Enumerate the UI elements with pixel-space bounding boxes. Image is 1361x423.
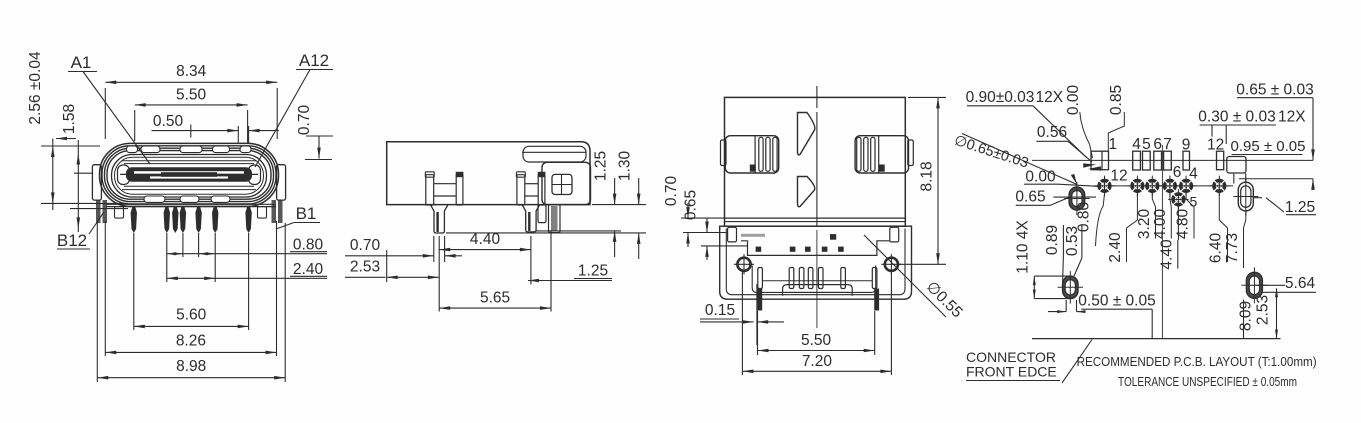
dim 8.34 bbox=[105, 63, 277, 84]
dim 0.70 v3 bbox=[663, 176, 690, 247]
callout 7.73 pcb bbox=[1224, 211, 1246, 268]
side view leg 2 bbox=[516, 172, 545, 205]
front view shell lug pins bbox=[96, 200, 283, 223]
callout 6.40 pcb bbox=[1208, 193, 1228, 263]
front view contact tongue bbox=[126, 167, 252, 182]
pcb pattern center line bbox=[1161, 145, 1163, 339]
front view left lug bbox=[92, 165, 101, 200]
pcb line2b bbox=[1239, 178, 1313, 180]
svg-text:0.85: 0.85 bbox=[1108, 85, 1125, 115]
svg-text:2.53: 2.53 bbox=[1255, 295, 1272, 325]
top view dimple 1 bbox=[798, 113, 815, 155]
dim 1.25/1.30 ext bbox=[446, 205, 646, 233]
dim 8.26 bbox=[105, 333, 276, 355]
pcb front edge line bbox=[1032, 338, 1281, 340]
svg-text:1.25: 1.25 bbox=[1285, 199, 1315, 216]
dim 0.70 v3 ext bbox=[681, 218, 748, 246]
dim 0.80 text bbox=[290, 236, 327, 253]
svg-text:5.60: 5.60 bbox=[176, 307, 207, 324]
top view comb slots bbox=[758, 268, 877, 289]
svg-text:1.58: 1.58 bbox=[61, 104, 78, 134]
svg-text:6: 6 bbox=[1153, 136, 1162, 153]
svg-text:5.50: 5.50 bbox=[801, 332, 832, 349]
front view mating cavity bbox=[112, 155, 267, 198]
svg-text:0.65: 0.65 bbox=[683, 190, 700, 220]
svg-text:2.40: 2.40 bbox=[293, 261, 324, 278]
pcb slot pad bottom-right bbox=[1241, 267, 1267, 303]
dim 7.20 v3 bbox=[742, 353, 891, 373]
callout 0.89 bbox=[1044, 225, 1063, 283]
svg-text:4: 4 bbox=[1189, 166, 1198, 183]
svg-text:6.40: 6.40 bbox=[1208, 233, 1225, 264]
pcb row1 center line bbox=[1032, 159, 1313, 161]
callout 0.65b bbox=[1015, 189, 1096, 206]
dim 2.40 text bbox=[290, 261, 327, 278]
dim 0.70 v2 text bbox=[345, 237, 386, 256]
front view skirt line bbox=[106, 204, 276, 206]
dim 2.56 ext bbox=[41, 146, 128, 203]
callout 0.50 bbox=[1048, 293, 1156, 339]
svg-text:2.53: 2.53 bbox=[350, 259, 380, 276]
top view solder windows bbox=[741, 234, 844, 252]
pad labels bbox=[1109, 136, 1225, 210]
callout 1.25 pcb bbox=[1253, 198, 1316, 216]
pcb shield pad bbox=[1227, 157, 1246, 184]
front view bottom latch slots bbox=[144, 196, 230, 202]
svg-text:8.26: 8.26 bbox=[176, 333, 206, 350]
svg-text:0.00: 0.00 bbox=[1025, 169, 1056, 186]
pcb slot pad top-right bbox=[1233, 177, 1258, 216]
label B12 bbox=[57, 231, 90, 250]
side view leg2 solder pin bbox=[522, 205, 539, 232]
dim 2.40 line bbox=[167, 277, 327, 281]
callout 1.10 4X bbox=[1015, 220, 1069, 299]
svg-text:1.25: 1.25 bbox=[578, 263, 608, 280]
svg-text:1.25: 1.25 bbox=[593, 151, 610, 181]
dim 2.56 line bbox=[51, 139, 55, 211]
callout 0.30 bbox=[1198, 109, 1306, 145]
front view side contact left bbox=[118, 165, 130, 185]
top view bracket inner bbox=[726, 229, 905, 295]
dim 8.98 bbox=[97, 358, 285, 380]
svg-text:2.56 ±0.04: 2.56 ±0.04 bbox=[27, 51, 44, 125]
svg-text:FRONT EDCE: FRONT EDCE bbox=[966, 364, 1057, 380]
side view leg1 solder pin bbox=[431, 205, 448, 233]
svg-text:12X: 12X bbox=[1278, 109, 1306, 126]
dim 0.50 line right bbox=[249, 129, 279, 133]
svg-text:1.10 4X: 1.10 4X bbox=[1015, 220, 1032, 274]
svg-text:RECOMMENDED P.C.B. LAYOUT (T:: RECOMMENDED P.C.B. LAYOUT (T:1.00mm) bbox=[1077, 354, 1317, 369]
leader A12 bbox=[255, 70, 310, 168]
label B1 bbox=[294, 204, 320, 223]
dim 2.53 v2 line bbox=[387, 250, 439, 282]
dim 1.58 line bbox=[77, 140, 81, 232]
callout 4.80 pcb bbox=[1175, 193, 1194, 239]
dim 1.58 tick bbox=[70, 173, 128, 208]
callout 0.95 bbox=[1231, 138, 1306, 155]
dim 1.58 text bbox=[61, 104, 78, 134]
pcb slot pad top-left bbox=[1064, 182, 1090, 215]
dim 1.25 v2b bbox=[528, 230, 612, 312]
side view shell body bbox=[387, 142, 590, 205]
callout 0.00 rot bbox=[1065, 85, 1093, 158]
svg-text:6: 6 bbox=[1173, 164, 1182, 181]
svg-text:7: 7 bbox=[1163, 136, 1172, 153]
stray arrow bbox=[56, 137, 76, 141]
svg-text:0.56: 0.56 bbox=[1037, 124, 1067, 141]
svg-text:8.34: 8.34 bbox=[176, 63, 207, 80]
dim 0.50 ext bbox=[238, 126, 248, 143]
note tolerance bbox=[1118, 374, 1297, 389]
svg-text:4.40: 4.40 bbox=[1158, 239, 1175, 270]
callout 8.09 bbox=[1238, 300, 1255, 339]
svg-text:4.40: 4.40 bbox=[470, 231, 501, 248]
callout 0.80 pcb bbox=[1076, 194, 1105, 247]
svg-text:0.80: 0.80 bbox=[293, 236, 324, 253]
pcb pad 1 bbox=[1091, 151, 1109, 170]
front view shell outline 4 bbox=[107, 151, 271, 200]
dim 4.40 v2 bbox=[439, 231, 531, 312]
dim 0.65 v3 bbox=[683, 190, 709, 260]
top view left EMC spring bbox=[721, 136, 779, 173]
callout 0.56 bbox=[1037, 124, 1093, 162]
leader B12 bbox=[89, 212, 104, 234]
callout 5.64 bbox=[1263, 275, 1317, 292]
note recommended bbox=[1077, 354, 1317, 369]
top view feet bbox=[757, 289, 879, 311]
svg-text:B12: B12 bbox=[57, 231, 87, 250]
dim 2.56 text bbox=[27, 51, 44, 125]
center tick bbox=[190, 125, 192, 138]
dim 2.53 v2 text bbox=[345, 259, 386, 278]
svg-text:7.73: 7.73 bbox=[1224, 233, 1241, 263]
svg-text:1: 1 bbox=[1109, 136, 1118, 153]
top view left rivet bbox=[734, 254, 754, 274]
top view body bbox=[725, 97, 906, 226]
front view shell outer outline bbox=[100, 143, 279, 206]
front view left leg outline bbox=[115, 207, 124, 219]
svg-text:5.50: 5.50 bbox=[176, 87, 207, 104]
svg-text:8.18: 8.18 bbox=[919, 161, 936, 191]
callout 0.00b bbox=[1024, 169, 1098, 187]
callout 0.90 bbox=[966, 89, 1087, 158]
callout 4.00 pcb bbox=[1152, 193, 1171, 239]
svg-text:0.90±0.03: 0.90±0.03 bbox=[966, 89, 1035, 106]
svg-text:0.30 ± 0.03: 0.30 ± 0.03 bbox=[1198, 109, 1275, 126]
top view bracket outer bbox=[720, 226, 912, 299]
svg-text:4.00: 4.00 bbox=[1152, 209, 1169, 240]
callout dia0.65 bbox=[952, 133, 1077, 185]
side view flange window bbox=[552, 174, 572, 194]
note connector front edge bbox=[966, 340, 1092, 384]
callout 2.53 pcb bbox=[1254, 285, 1285, 338]
dim 8.18 bbox=[919, 97, 940, 264]
pcb through-hole pads row2 bbox=[1094, 176, 1229, 210]
svg-text:0.50: 0.50 bbox=[153, 113, 184, 130]
dim 0.80 line bbox=[167, 252, 327, 255]
pad1 arrows bbox=[1083, 163, 1101, 170]
svg-text:0.70: 0.70 bbox=[663, 176, 680, 207]
side view rear flange bbox=[542, 162, 591, 204]
dim 1.30 v2 bbox=[617, 151, 641, 259]
front view shell outline 3 bbox=[105, 148, 274, 201]
svg-text:0.70: 0.70 bbox=[296, 105, 313, 136]
callout 0.53 bbox=[1064, 225, 1082, 276]
svg-text:0.00: 0.00 bbox=[1065, 85, 1082, 116]
svg-text:2.40: 2.40 bbox=[1107, 232, 1124, 263]
top view front edge step bbox=[741, 241, 890, 256]
dim 5.65 v2 bbox=[439, 290, 551, 310]
svg-text:0.80: 0.80 bbox=[1076, 202, 1093, 233]
front view shell outline 2 bbox=[102, 146, 276, 204]
svg-text:0.65: 0.65 bbox=[1015, 189, 1045, 206]
pcb pad 12 bbox=[1217, 151, 1224, 170]
svg-text:0.50 ± 0.05: 0.50 ± 0.05 bbox=[1078, 293, 1155, 310]
svg-text:8.98: 8.98 bbox=[176, 358, 206, 375]
v3 ext lines bbox=[742, 271, 891, 375]
svg-text:9: 9 bbox=[1182, 137, 1191, 154]
svg-text:4: 4 bbox=[1132, 136, 1141, 153]
callout 4.40 pcb bbox=[1158, 207, 1178, 270]
top view bottom tray bbox=[783, 285, 853, 296]
svg-text:0.15: 0.15 bbox=[705, 302, 735, 319]
svg-text:1.30: 1.30 bbox=[617, 151, 634, 182]
svg-text:5: 5 bbox=[1142, 136, 1151, 153]
leader A1 bbox=[83, 72, 150, 165]
pin extension lines bbox=[97, 221, 285, 382]
svg-text:12: 12 bbox=[1207, 137, 1224, 154]
label A12 bbox=[296, 51, 333, 70]
dim 8.18 ext bbox=[899, 97, 946, 264]
dim 0.70 right text bbox=[296, 105, 313, 136]
dim 8.34 extension lines bbox=[105, 88, 277, 139]
front view cavity inner line bbox=[115, 157, 264, 194]
top view right EMC spring bbox=[855, 136, 913, 173]
leader dia 0.55 bbox=[864, 235, 966, 321]
dim 0.50 line left bbox=[152, 129, 239, 133]
front view cavity lines bbox=[122, 161, 256, 190]
svg-text:TOLERANCE UNSPECIFIED ± 0.05mm: TOLERANCE UNSPECIFIED ± 0.05mm bbox=[1118, 374, 1297, 389]
top view bracket posts bbox=[728, 227, 899, 242]
svg-text:4.80: 4.80 bbox=[1175, 209, 1192, 240]
dim 5.50 v3 bbox=[758, 332, 875, 352]
svg-text:0.70: 0.70 bbox=[350, 237, 381, 254]
dim 0.50 text bbox=[153, 113, 184, 130]
front view top latch slots bbox=[127, 146, 252, 153]
svg-text:12: 12 bbox=[1110, 168, 1127, 185]
front view side contact right bbox=[249, 165, 261, 185]
dim 1.25 v2 bbox=[593, 151, 617, 257]
dim 0.70 right line bbox=[305, 136, 333, 160]
top view right rivet bbox=[881, 254, 901, 274]
svg-text:7.20: 7.20 bbox=[802, 353, 833, 370]
pcb pads 4-7 bbox=[1133, 151, 1172, 170]
leader B1 bbox=[276, 223, 294, 230]
dim 5.60 bbox=[134, 307, 249, 329]
svg-text:A12: A12 bbox=[299, 51, 329, 70]
side view leg 1 bbox=[425, 172, 463, 205]
svg-text:0.65 ± 0.03: 0.65 ± 0.03 bbox=[1236, 82, 1313, 99]
svg-text:8.09: 8.09 bbox=[1238, 301, 1255, 331]
pcb pad 9 bbox=[1183, 151, 1190, 170]
top view dimple 2 bbox=[798, 177, 815, 207]
svg-text:0.95 ± 0.05: 0.95 ± 0.05 bbox=[1231, 138, 1306, 155]
top view body seam lines bbox=[725, 218, 906, 222]
label A1 bbox=[68, 53, 97, 72]
top view bracket top edge bbox=[725, 225, 906, 227]
callout 0.65 top bbox=[1236, 82, 1313, 99]
callout 2.40 pcb bbox=[1107, 193, 1137, 263]
dim 0.70 v2 line bbox=[386, 236, 463, 262]
top view inner window bbox=[752, 266, 876, 293]
svg-text:B1: B1 bbox=[296, 204, 317, 223]
dim 0.15 bbox=[700, 302, 784, 324]
pcb slot pad bottom-left bbox=[1058, 271, 1083, 304]
svg-text:5.65: 5.65 bbox=[480, 290, 510, 307]
dim 0.65 right line bbox=[1311, 98, 1315, 190]
front view right leg outline bbox=[258, 207, 267, 219]
callout 0.85 rot bbox=[1108, 85, 1125, 151]
svg-text:3.20: 3.20 bbox=[1136, 209, 1153, 240]
svg-text:12X: 12X bbox=[1036, 89, 1064, 106]
callout 3.20 pcb bbox=[1136, 193, 1156, 239]
pcb row2 center line bbox=[1095, 185, 1233, 187]
svg-text:0.89: 0.89 bbox=[1044, 225, 1061, 255]
dim 5.50 bbox=[135, 87, 248, 107]
side view top step tab bbox=[522, 146, 586, 162]
dim 5.50 extension lines bbox=[135, 110, 248, 143]
svg-text:5.64: 5.64 bbox=[1285, 275, 1316, 292]
front view contact pins bbox=[131, 207, 252, 233]
top view center line bbox=[816, 86, 818, 328]
front view right lug bbox=[277, 165, 286, 200]
side view flange tabs bbox=[538, 205, 560, 233]
front view tongue center line bbox=[120, 173, 258, 175]
svg-text:A1: A1 bbox=[71, 53, 92, 72]
